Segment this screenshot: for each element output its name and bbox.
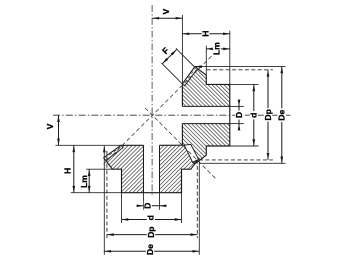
ext line hub right G2: [181, 193, 183, 223]
svg-text:Dp: Dp: [263, 109, 273, 120]
svg-text:V: V: [161, 8, 171, 14]
tooth flank ticks G1: [185, 68, 196, 83]
arrow at top face G2: [103, 146, 106, 153]
tooth tip to apex G1: [193, 162, 195, 163]
ext line De lower: [200, 162, 286, 164]
gear G2 (vertical axis, bottom): [104, 144, 200, 192]
ext line Dp left dashed: [106, 151, 108, 238]
dimension Dp right: [263, 70, 273, 160]
dimension De right: [277, 66, 287, 163]
dimension Lm top: [206, 42, 230, 56]
dimension Lm left: [79, 169, 91, 193]
ext line bore bottom G1: [230, 123, 244, 125]
ext line top face G2: [56, 144, 122, 146]
gear G1 bore: [182, 106, 229, 123]
ext line F heel: [162, 63, 183, 84]
extension lines right side: [195, 66, 285, 163]
ext line hub top G1: [230, 83, 259, 85]
ext line back face G1: [229, 31, 231, 85]
ext line hub left G2: [121, 193, 123, 223]
centerline horizontal axis: [53, 114, 291, 116]
ext line step G1: [205, 46, 207, 76]
svg-text:H: H: [63, 168, 73, 174]
ext line bottom face G2: [71, 192, 122, 194]
tooth flank ticks G2: [106, 147, 121, 158]
gear G2 bore: [144, 145, 160, 192]
arrow at apex G1: [195, 65, 202, 68]
dimension V left: [45, 115, 60, 145]
gear G2 left tooth: [104, 145, 123, 160]
extension lines left side: [56, 145, 122, 192]
dimension De bottom: [104, 243, 199, 257]
extension lines for top dims: [182, 15, 229, 84]
centerline vertical axis: [151, 5, 153, 197]
svg-text:D: D: [234, 112, 244, 118]
svg-text:Lm: Lm: [212, 42, 222, 55]
dimension d bottom: [122, 214, 182, 222]
dimension F (45 deg): [160, 45, 195, 83]
ext line shoulder G2: [86, 168, 112, 170]
ext line Dp upper dashed: [207, 69, 273, 71]
ext line bore right G2: [159, 193, 161, 210]
ext line front face G1: [181, 15, 183, 84]
ext line F apex: [176, 48, 195, 67]
svg-text:D: D: [143, 203, 153, 209]
ext line De right: [198, 161, 200, 255]
dimension D right: [234, 100, 244, 131]
dimension D bottom: [137, 201, 167, 210]
svg-text:De: De: [277, 109, 287, 120]
dimension Dp bottom: [107, 225, 197, 239]
dimension V top: [152, 8, 182, 19]
ext line Dp lower dashed: [199, 159, 273, 161]
ext line hub bottom G1: [230, 145, 259, 147]
ext line De upper: [195, 65, 285, 67]
gear G2 outline: [104, 145, 200, 192]
gear G1 upper tooth: [182, 67, 197, 86]
gear G2 body: [104, 145, 200, 192]
svg-text:H: H: [200, 30, 210, 36]
centerline NE-SW diagonal: [104, 56, 212, 164]
ext line bore left G2: [143, 193, 145, 210]
svg-text:V: V: [45, 123, 55, 129]
extension lines bottom: [104, 146, 199, 255]
svg-text:d: d: [146, 215, 156, 220]
centerline NW-SE diagonal: [145, 108, 216, 178]
gear G2 top face: [121, 144, 185, 146]
svg-text:Dp: Dp: [146, 226, 156, 237]
ext line De left: [103, 146, 105, 255]
svg-text:d: d: [249, 113, 259, 118]
ext line Dp right dashed: [196, 160, 198, 239]
dimension d right: [249, 84, 259, 146]
ext line bore top G1: [230, 105, 244, 107]
dimension H top: [182, 28, 229, 38]
svg-text:De: De: [145, 244, 155, 255]
dimension H left: [63, 145, 75, 192]
gear G1 bore edges: [182, 106, 229, 123]
svg-text:Lm: Lm: [79, 175, 89, 188]
gear G1 (horizontal axis, right): [182, 67, 229, 164]
gear G1 front face: [181, 84, 183, 146]
gear G2 bore edges: [144, 145, 160, 192]
gear G2 right tooth (mesh): [184, 144, 198, 162]
gear G1 body: [182, 67, 229, 164]
gear G1 outline: [182, 67, 229, 164]
